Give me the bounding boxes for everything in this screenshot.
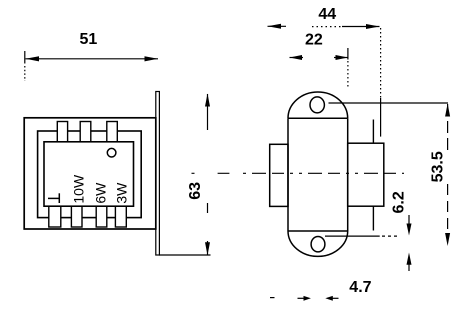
core lamination rectangle [38,131,142,218]
svg-text:10W: 10W [71,174,87,204]
svg-text:4.7: 4.7 [349,279,371,296]
svg-text:44: 44 [318,6,336,23]
bobbin rectangle [44,142,134,206]
top pin 1 [57,122,67,142]
top pin 3 [107,122,118,142]
bottom pin 3 [96,206,107,227]
mounting flange (double line, right side) [156,92,160,256]
core edge line top [372,120,374,144]
indicator circle [107,148,116,157]
svg-text:3W: 3W [113,182,129,204]
bottom mounting hole [311,237,325,252]
svg-text:6.2: 6.2 [391,191,408,213]
svg-text:51: 51 [80,31,98,48]
svg-text:53.5: 53.5 [430,151,447,182]
bottom pin 2 [71,206,82,227]
core edge line bottom [372,206,374,230]
top mounting hole [310,97,324,113]
left coil protrusion [270,144,288,206]
svg-text:22: 22 [305,32,323,49]
ground symbol (rotated) [48,193,59,203]
top pin 2 [80,122,91,142]
outer bracket rectangle [24,118,156,229]
bottom pin 1 [49,206,61,227]
svg-text:6W: 6W [93,182,109,204]
right coil protrusion [348,143,384,206]
bottom pin 4 [115,206,126,227]
stadium bracket outline [288,92,348,256]
svg-text:63: 63 [187,182,204,200]
